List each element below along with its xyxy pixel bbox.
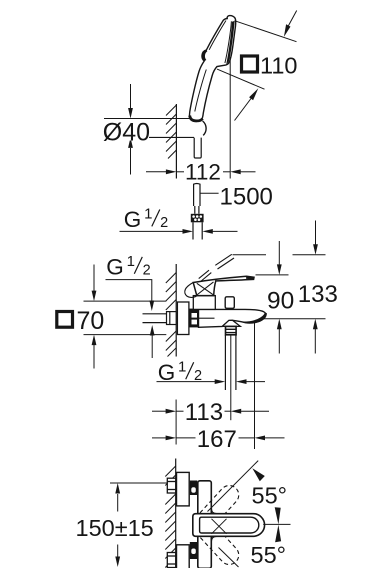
dimension 112: left arrow	[146, 171, 166, 173]
escutcheon 2 (bottom section)	[177, 545, 190, 568]
S-union block (dark)	[189, 309, 198, 328]
dimension 113/167: left extension line	[175, 400, 177, 445]
dimension Ø40: lower arrow	[130, 148, 132, 175]
dimension 90: lower arrow	[278, 329, 280, 354]
svg-text:2: 2	[160, 215, 168, 231]
dimension 110: upper diagonal extension line	[235, 21, 297, 42]
spray face dark band	[226, 21, 235, 64]
dimension 110: upper arrow	[288, 11, 297, 27]
angle centerline	[263, 523, 290, 525]
outlet nut	[226, 326, 237, 334]
svg-text:113: 113	[185, 399, 223, 426]
wall line (bottom section)	[175, 459, 177, 568]
svg-text:150±15: 150±15	[76, 515, 154, 541]
connector nut 2 (dark)	[190, 542, 198, 559]
dimension 70: lower arrow	[93, 345, 95, 369]
shower outlet pipe centerline	[230, 335, 232, 420]
svg-text:1: 1	[178, 358, 186, 375]
hand shower (head + handle)	[189, 16, 235, 122]
svg-text:1500: 1500	[220, 183, 273, 210]
upper 55° axis line	[208, 461, 259, 512]
svg-text:G: G	[158, 360, 176, 385]
faucet body and spout	[199, 309, 266, 327]
svg-text:55°: 55°	[251, 542, 287, 568]
dimension 133: upper arrow	[315, 221, 317, 246]
dimension Ø40: label	[104, 122, 149, 141]
lever X-brace (top view)	[212, 519, 227, 534]
hose connector neck	[195, 206, 199, 214]
shower button (dark)	[202, 50, 206, 60]
hose nut (knurled)	[191, 214, 204, 223]
lower dashed lever position	[194, 517, 243, 568]
angle arrow upper (bowtie)	[275, 507, 281, 524]
svg-text:G: G	[124, 207, 142, 232]
dimension 133: lower arrow	[314, 329, 316, 354]
svg-text:G: G	[106, 254, 124, 279]
holder knob	[203, 121, 207, 135]
dimension 112: right arrow	[241, 171, 256, 173]
lever X-brace	[197, 283, 214, 295]
dimension 112: right extension line	[229, 57, 231, 179]
dimension 113: dimension line and arrows	[152, 410, 166, 412]
svg-text:167: 167	[197, 426, 237, 453]
svg-text:90: 90	[267, 287, 294, 314]
holder pin	[194, 138, 201, 158]
dimension 90: extension line	[256, 274, 289, 276]
hose connector tube	[194, 184, 200, 207]
shower head inner highlight line	[209, 21, 226, 50]
connector nut 1 (dark)	[190, 481, 198, 496]
lever body fillets (top view)	[211, 509, 217, 542]
shower handle inner line	[195, 70, 207, 112]
dimension 110: lower diagonal extension line	[217, 69, 265, 89]
dimension 110: lower arrow	[235, 97, 253, 121]
dimension 150±15: leader line	[110, 482, 167, 484]
inlet pipe (middle)	[143, 313, 167, 315]
svg-text:1: 1	[127, 253, 135, 270]
outlet cone	[222, 320, 240, 326]
dimension 150±15: up arrow	[117, 494, 119, 512]
lever (top view, solid)	[193, 514, 265, 537]
faucet body (top view)	[198, 481, 212, 568]
escutcheon (middle)	[177, 302, 189, 335]
spout mouth (dark crescent)	[242, 313, 267, 324]
dimension 167: dimension line and arrows	[152, 437, 166, 439]
wall line (middle section)	[175, 264, 177, 357]
lever tip (dark)	[246, 276, 254, 279]
dimension 70: upper arrow	[93, 265, 95, 292]
body mid line	[199, 317, 215, 319]
supply nut 2 (bottom section)	[167, 553, 175, 568]
lower 55° axis line	[219, 548, 239, 568]
inlet nut (middle)	[167, 312, 177, 325]
svg-text:110: 110	[260, 53, 297, 79]
dimension 70: top extension line	[84, 300, 167, 302]
dimension 70: bottom extension line	[84, 334, 167, 336]
raised lever phantom lines	[215, 254, 232, 265]
dimension 90: upper arrow	[278, 241, 280, 265]
shower face plate inner line	[225, 21, 232, 63]
wall line (top section)	[175, 104, 177, 179]
dimension G1/2 (bottom): right arrow	[246, 381, 265, 383]
label 1500 leader	[201, 192, 219, 194]
handle end cap (dark)	[190, 116, 203, 121]
holder arm top line / Ø40 extension top	[104, 118, 190, 120]
wall hatching (top section)	[166, 105, 176, 159]
upper 55° arrowhead	[252, 468, 264, 481]
dimension G1/2 (middle): up arrow	[151, 336, 153, 359]
supply nut 1 (bottom section)	[167, 478, 175, 493]
hose	[193, 222, 202, 239]
dimension 112: dimension line	[176, 171, 184, 173]
svg-text:1: 1	[144, 206, 152, 223]
dimension G1/2 (bottom): left arrow leader	[157, 381, 216, 383]
dimension 167: right extension line	[254, 321, 256, 449]
baseline (spout underside) extension line	[259, 318, 326, 320]
svg-text:2: 2	[143, 262, 151, 278]
upper dashed lever position	[194, 482, 243, 533]
escutcheon 1 (bottom section)	[177, 472, 190, 506]
angle arrow lower (bowtie)	[275, 525, 281, 543]
dimension 133: top extension line	[233, 254, 267, 256]
svg-text:133: 133	[298, 281, 338, 308]
dimension 150±15: down arrow	[117, 545, 119, 557]
wall hatching (middle section)	[166, 273, 176, 357]
shower outlet pipe	[224, 335, 226, 390]
svg-text:55°: 55°	[252, 483, 288, 509]
svg-text:112: 112	[185, 160, 221, 185]
svg-text:70: 70	[77, 307, 105, 335]
svg-text:Ø40: Ø40	[103, 119, 150, 147]
cartridge housing	[193, 296, 215, 310]
lever handle (middle)	[193, 276, 254, 295]
lever back bulge	[185, 283, 197, 298]
dimension G1/2 (top): right arrow	[213, 230, 238, 232]
lever inner outline (top view)	[200, 517, 259, 533]
holder arm bottom line / Ø40 extension bottom	[104, 136, 194, 138]
dimension 70: square symbol	[57, 312, 73, 328]
dimension Ø40: upper arrow	[130, 84, 132, 109]
dimension G1/2 (middle): leader and down arrow	[106, 280, 152, 301]
dimension G1/2 (top): left arrow and leader	[120, 230, 184, 232]
dimension 110: square symbol	[242, 56, 258, 72]
wall hatching (bottom section)	[165, 466, 175, 568]
diverter knob	[225, 297, 234, 309]
